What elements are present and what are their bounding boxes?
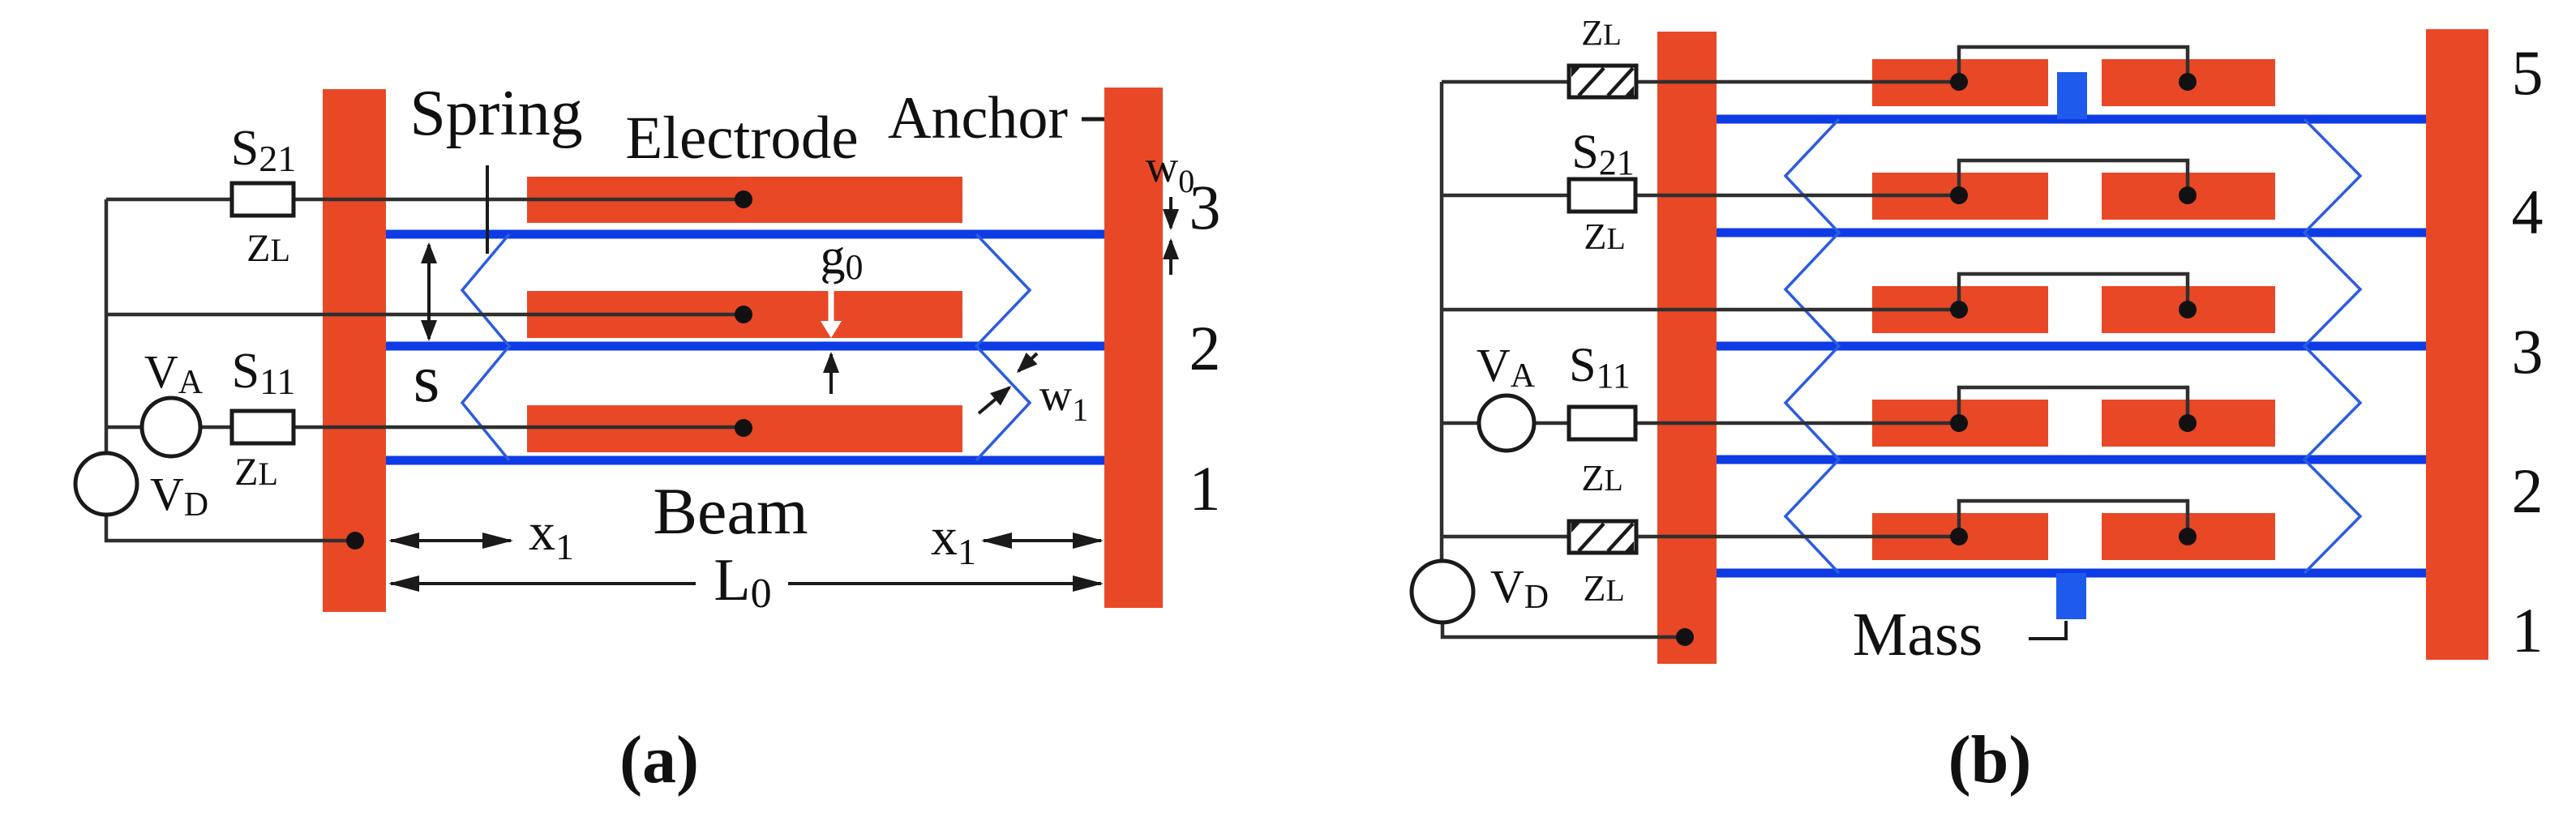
wire row2 S21 line (b) — [1442, 194, 1959, 198]
node dot electrode2 (a) — [735, 306, 752, 323]
spring left zigzag (b) — [1785, 119, 1839, 573]
electrode row4 left (b) — [1872, 173, 2048, 220]
anchor bar right (a) — [1104, 88, 1163, 608]
anchor bar right (b) — [2426, 29, 2488, 660]
beam 1 (a) — [386, 456, 1104, 465]
wire row1 ZL line (b) — [1442, 80, 1959, 84]
beam 1 (b) — [1717, 569, 2426, 578]
anchor bar left (b) — [1657, 32, 1717, 664]
arrow L0 left segment (a) — [391, 582, 696, 585]
node dots row2 (b) — [1950, 414, 1968, 432]
svg-text:s: s — [414, 341, 440, 417]
electrode row1 right (b) — [2102, 513, 2275, 560]
bridge wire row3 (b) — [1959, 274, 2188, 310]
svg-text:1: 1 — [1189, 453, 1221, 524]
electrode row2 left (b) — [1872, 400, 2048, 447]
arrow w0 up (a) — [1169, 241, 1172, 275]
anchor bar left (a) — [323, 89, 386, 612]
wire VD to anchor bottom (b) — [1442, 621, 1685, 637]
resistor ZL hatched row1 (b) — [1569, 66, 1636, 97]
arrow g0 black up (a) — [829, 354, 833, 394]
electrode row5 right (b) — [2102, 59, 2275, 106]
pointer line Spring (a) — [486, 165, 489, 254]
svg-text:Anchor: Anchor — [888, 85, 1068, 152]
svg-text:4: 4 — [2512, 177, 2544, 247]
spring right zigzag (b) — [2304, 119, 2360, 573]
resistor S21/ZL row2 (b) — [1569, 179, 1635, 212]
wire row1 S21 line (a) — [106, 198, 744, 202]
node dots row3 (b) — [1950, 301, 1968, 319]
voltage source VA (a) — [142, 398, 200, 456]
svg-text:(b): (b) — [1948, 722, 2032, 798]
svg-text:(a): (a) — [619, 722, 699, 798]
electrode 1 (a top) — [527, 177, 962, 223]
svg-text:ZL: ZL — [234, 451, 278, 494]
arrow x1 right (a) — [984, 539, 1101, 542]
node dots row4 (b) — [1950, 186, 1968, 204]
mass tab top (b) — [2057, 72, 2087, 119]
arrow w0 down (a) — [1169, 197, 1172, 228]
node dots row5 (b) — [1950, 73, 1968, 91]
spring right zigzag (a) — [976, 234, 1030, 460]
resistor ZL hatched row5 (b) — [1569, 521, 1636, 553]
svg-text:ZL: ZL — [1581, 13, 1622, 53]
arrow x1 left (a) — [391, 539, 511, 542]
wire row3 line (b) — [1442, 308, 1959, 312]
electrode row2 right (b) — [2102, 400, 2275, 447]
svg-text:Beam: Beam — [653, 474, 808, 548]
svg-text:ZL: ZL — [246, 227, 290, 270]
svg-text:3: 3 — [1189, 172, 1221, 242]
wire row2 middle line (a) — [106, 313, 744, 317]
beam 3 (a) — [386, 230, 1104, 239]
svg-text:5: 5 — [2512, 37, 2544, 108]
svg-text:ZL: ZL — [1584, 216, 1625, 257]
electrode row4 right (b) — [2102, 173, 2275, 220]
arrow w1 upper (a) — [1018, 353, 1037, 371]
arrow g0 white down (a) — [821, 282, 842, 338]
electrode 2 (a middle) — [527, 291, 962, 338]
electrode row1 left (b) — [1872, 513, 2048, 560]
svg-text:2: 2 — [1189, 313, 1221, 383]
svg-text:Electrode: Electrode — [625, 105, 858, 172]
svg-text:1: 1 — [2512, 595, 2544, 665]
node dot electrode1 (a) — [735, 190, 752, 208]
resistor ZL row1 (a) — [232, 183, 294, 216]
beam 2 (a) — [386, 342, 1104, 351]
bridge wire row2 (b) — [1959, 387, 2188, 423]
svg-text:ZL: ZL — [1583, 567, 1624, 609]
voltage source VD (a) — [75, 453, 137, 515]
wire row4 S11 line (b) — [1442, 421, 1959, 426]
resistor S11/ZL row4 (b) — [1569, 407, 1635, 439]
electrode 3 (a bottom) — [527, 405, 962, 452]
bridge wire row4 (b) — [1959, 160, 2188, 195]
svg-text:2: 2 — [2512, 456, 2544, 526]
wire VD to anchor bottom (a) — [106, 514, 355, 541]
arrow L0 right segment (a) — [788, 582, 1101, 585]
svg-text:Mass: Mass — [1853, 601, 1982, 669]
mass tab bottom (b) — [2056, 573, 2086, 619]
wire row3 S11 line (a) — [106, 426, 744, 430]
electrode row3 right (b) — [2102, 286, 2275, 333]
svg-text:3: 3 — [2512, 316, 2544, 387]
spring left zigzag (a) — [462, 234, 509, 460]
svg-text:ZL: ZL — [1581, 457, 1622, 498]
node dots row1 (b) — [1950, 528, 1968, 545]
pointer dash Anchor (a) — [1082, 118, 1104, 122]
wire left bus vertical (a) — [105, 199, 109, 453]
pointer elbow Mass (b) — [2029, 621, 2066, 639]
wire row5 ZL line (b) — [1442, 535, 1959, 539]
bridge wire row5 (b) — [1959, 47, 2188, 82]
voltage source VA (b) — [1479, 396, 1534, 451]
arrow s dimension (a) — [427, 245, 431, 339]
arrow w1 lower (a) — [979, 387, 1009, 413]
resistor ZL row3 (a) — [232, 411, 294, 443]
beam 4 (b) — [1717, 229, 2426, 237]
node dot electrode3 (a) — [735, 419, 752, 437]
bridge wire row1 (b) — [1959, 501, 2188, 537]
node dot anchor bottom (a) — [346, 532, 364, 550]
beam 2 (b) — [1717, 456, 2426, 464]
electrode row3 left (b) — [1872, 286, 2048, 333]
beam 3 (b) — [1717, 342, 2426, 351]
node dot anchor bottom (b) — [1676, 628, 1694, 646]
voltage source VD (b) — [1412, 561, 1473, 622]
electrode row5 left (b) — [1872, 59, 2048, 106]
wire left bus vertical (b) — [1440, 82, 1444, 562]
beam 5 (b) — [1717, 115, 2426, 124]
svg-text:Spring: Spring — [409, 78, 582, 149]
